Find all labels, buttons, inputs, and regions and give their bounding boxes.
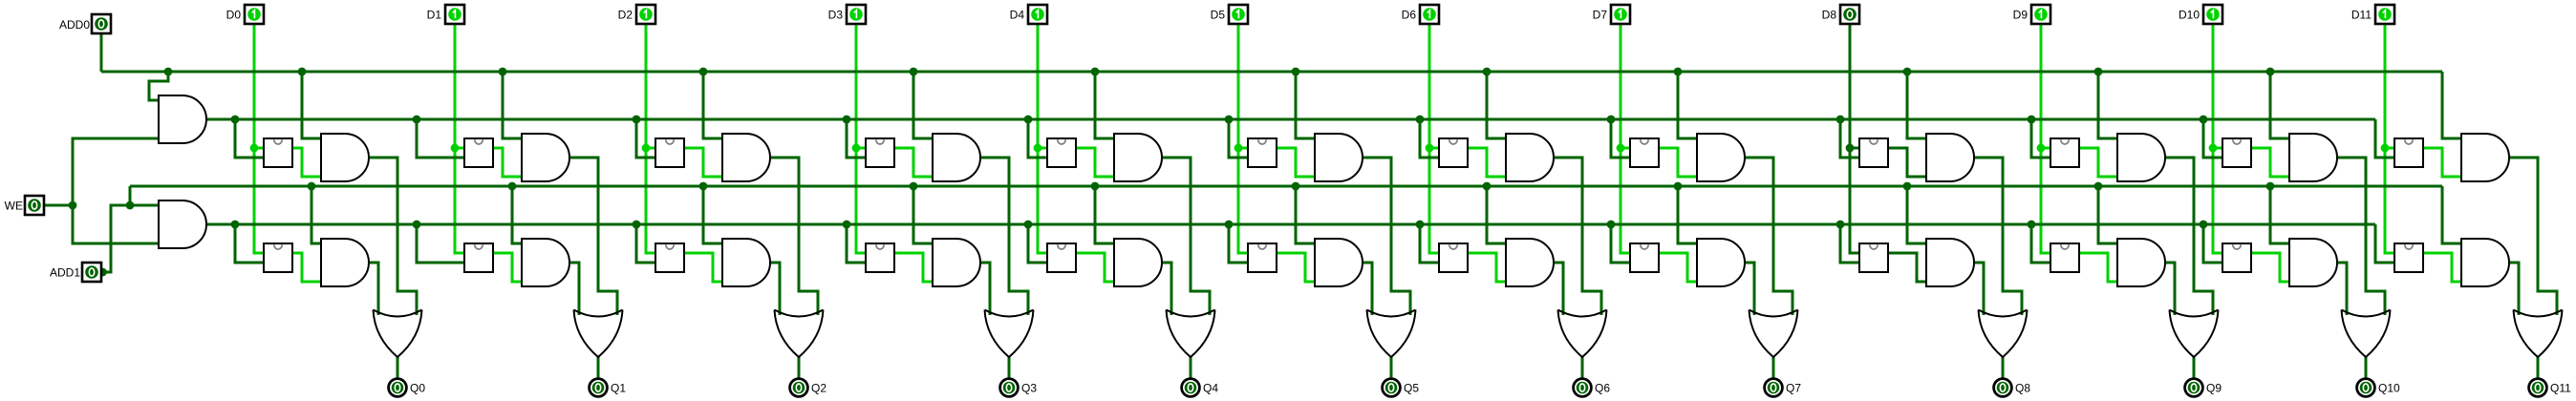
wire bus A tap down to AND U10A top input [2270,72,2289,138]
wire WE up to AND UA lower input [73,138,159,205]
junction bus A / AND UA jog [164,68,173,76]
label D8 [1822,9,1837,22]
wire AND U5A output to OR U5C right input [1363,158,1410,315]
wire bus A tap down to AND U0A top input [302,72,321,138]
svg-text:D4: D4 [1010,9,1025,22]
svg-text:Q8: Q8 [2015,382,2030,395]
wire bus 2 tap down to AND U7B top input [1678,186,1697,243]
label Q10 [2378,382,2400,395]
wire bus 3 tap down to latch L6B enable [1420,224,1439,263]
wire bus 1 tap down to latch L1A enable [417,119,464,158]
wire bus 2 tap down to AND U10B top input [2270,186,2289,243]
latch L3B (row 1, bit 3) [866,243,894,272]
wire bus A tap down to AND U2A top input [703,72,722,138]
wire ADD0 pin to bus A [100,33,103,72]
label Q6 [1595,382,1610,395]
wire bus 1 tap down to latch L9A enable [2031,119,2050,158]
wire bus 1 tap down to latch L7A enable [1611,119,1630,158]
output pin Q1 [590,379,608,397]
input pin WE [25,196,44,215]
junction bus 2 tap column 2 [699,182,708,191]
junction bus A tap column 3 [910,68,918,76]
input pin D11 [2375,5,2394,24]
label Q7 [1786,382,1801,395]
OR gate U0C (read mux, bit 0) [374,310,422,358]
AND gate U11B (row 1 read) [2461,239,2509,286]
svg-text:D3: D3 [828,9,844,22]
wire AND U3B output to OR U3C left input [980,263,990,315]
wire AND U8B output to OR U8C left input [1974,263,1984,315]
junction D1 line / latch L1A data branch [451,144,460,153]
wire bus 2 tap down to AND U9B top input [2098,186,2117,243]
output pin Q5 [1383,379,1401,397]
wire OR U4C output to pin Q4 [1190,357,1192,378]
wire branch D1 to latch L1A data input [455,147,464,150]
junction bus 1 tap column 0 [231,116,240,124]
junction bus 3 tap column 6 [1416,221,1425,229]
wire bus A tap down to AND U3A top input [913,72,933,138]
label Q0 [410,382,425,395]
wire ADD1 riser to bus 2 [129,186,132,205]
latch L1A (row 0, bit 1) [464,138,493,167]
wire branch D8 to latch L8A data input [1850,147,1859,150]
output pin Q8 [1994,379,2012,397]
svg-text:Q6: Q6 [1595,382,1610,395]
junction D10 line / latch L10A data branch [2209,144,2218,153]
svg-text:D11: D11 [2351,9,2372,22]
latch L11B (row 1, bit 11) [2394,243,2423,272]
junction WE node [69,201,77,210]
AND gate U2A (row 0 read) [722,134,770,181]
AND gate U5A (row 0 read) [1315,134,1363,181]
wire branch D9 to latch L9A data input [2041,147,2050,150]
wire latch L9A output to AND U9A lower input [2079,148,2117,177]
wire latch L11A output to AND U11A lower input [2423,148,2461,177]
junction D8 line / latch L8A data branch [1846,144,1855,153]
label D6 [1402,9,1417,22]
wire latch L6A output to AND U6A lower input [1468,148,1506,177]
wire AND U6B output to OR U6C left input [1554,263,1563,315]
wire bus 3 tap down to latch L7B enable [1611,224,1630,263]
label D2 [618,9,633,22]
wire latch L4B output to AND U4B lower input [1076,253,1114,282]
svg-text:Q3: Q3 [1021,382,1037,395]
junction D2 line / latch L2A data branch [642,144,651,153]
svg-text:D9: D9 [2013,9,2029,22]
wire bus 1 (row0 write-enable net from AND UA) [206,118,2375,121]
wire D3 vertical from pin D3 down to latch L3B data input [856,24,866,253]
wire branch D3 to latch L3A data input [856,147,866,150]
label D3 [828,9,844,22]
svg-text:ADD0: ADD0 [59,18,90,32]
wire OR U10C output to pin Q10 [2365,357,2368,378]
latch L7A (row 0, bit 7) [1630,138,1659,167]
junction bus 2 tap column 6 [1483,182,1492,191]
wire AND U5B output to OR U5C left input [1363,263,1372,315]
wire bus A tap down to AND U9A top input [2098,72,2117,138]
wire AND U0B output to OR U0C left input [369,263,378,315]
wire AND U11B output to OR U11C left input [2509,263,2519,315]
junction bus 3 tap column 0 [231,221,240,229]
svg-text:D6: D6 [1402,9,1417,22]
wire OR U1C output to pin Q1 [597,357,600,378]
junction bus A tap column 8 [1903,68,1912,76]
wire D10 vertical from pin D10 down to latch L10B data input [2213,24,2222,253]
wire bus 2 tap down to AND U5B top input [1296,186,1315,243]
label ADD0 [59,18,90,32]
svg-text:Q5: Q5 [1404,382,1419,395]
junction bus 1 tap column 4 [1024,116,1033,124]
junction bus 2 tap column 7 [1674,182,1683,191]
OR gate U11C (read mux, bit 11) [2514,310,2563,358]
label D4 [1010,9,1025,22]
input pin D2 [636,5,655,24]
wire bus 1 tap down to latch L4A enable [1028,119,1047,158]
junction bus 3 tap column 5 [1225,221,1234,229]
junction bus 3 tap column 7 [1607,221,1616,229]
input pin D10 [2203,5,2222,24]
wire bus 3 (row1 write-enable net from AND UB) [206,223,2375,226]
input pin D3 [847,5,866,24]
input pin D9 [2031,5,2050,24]
wire bus 1 tap down to latch L6A enable [1420,119,1439,158]
svg-text:D8: D8 [1822,9,1837,22]
junction D6 line / latch L6A data branch [1426,144,1434,153]
wire latch L1B output to AND U1B lower input [493,253,522,282]
wire branch D5 to latch L5A data input [1238,147,1248,150]
latch L8B (row 1, bit 8) [1859,243,1888,272]
input pin D0 [245,5,264,24]
wire bus A tap down to AND U5A top input [1296,72,1315,138]
junction bus A tap column 5 [1292,68,1300,76]
latch L2B (row 1, bit 2) [655,243,684,272]
wire WE pin to junction [44,204,73,207]
junction D9 line / latch L9A data branch [2037,144,2046,153]
wire AND U9B output to OR U9C left input [2165,263,2175,315]
OR gate U6C (read mux, bit 6) [1558,310,1607,358]
wire branch D0 to latch L0A data input [254,147,264,150]
junction D5 line / latch L5A data branch [1234,144,1243,153]
wire bus 2 (ADD1 net) horizontal [130,185,2442,188]
wire AND U7B output to OR U7C left input [1745,263,1754,315]
input pin D7 [1611,5,1630,24]
AND gate U7A (row 0 read) [1697,134,1745,181]
junction bus A tap column 2 [699,68,708,76]
junction bus 1 tap column 10 [2200,116,2208,124]
junction bus 2 tap column 10 [2266,182,2275,191]
junction bus 2 tap column 1 [508,182,517,191]
OR gate U9C (read mux, bit 9) [2170,310,2219,358]
wire bus 3 tap down to latch L2B enable [636,224,655,263]
input pin ADD1 [82,263,101,282]
junction ADD1 node / bus 2 riser [126,201,135,210]
AND gate U0A (row 0 read) [321,134,369,181]
wire AND U0A output to OR U0C right input [369,158,417,315]
output pin Q11 [2529,379,2547,397]
wire latch L8A output to AND U8A lower input [1888,148,1926,177]
junction bus 2 tap column 0 [308,182,316,191]
svg-text:D7: D7 [1593,9,1608,22]
junction bus 2 tap column 9 [2094,182,2103,191]
svg-text:D0: D0 [226,9,242,22]
input pin D8 [1840,5,1859,24]
label D5 [1211,9,1226,22]
input pin D6 [1420,5,1439,24]
wire bus 2 tap down to AND U2B top input [703,186,722,243]
wire AND U2B output to OR U2C left input [770,263,780,315]
junction bus 1 tap column 7 [1607,116,1616,124]
latch L11A (row 0, bit 11) [2394,138,2423,167]
wire AND U10A output to OR U10C right input [2337,158,2385,315]
latch L4A (row 0, bit 4) [1047,138,1076,167]
latch L9A (row 0, bit 9) [2050,138,2079,167]
junction bus 1 tap column 9 [2028,116,2036,124]
wire D7 vertical from pin D7 down to latch L7B data input [1621,24,1630,253]
wire branch D2 to latch L2A data input [646,147,655,150]
wire AND U1B output to OR U1C left input [569,263,579,315]
wire branch D7 to latch L7A data input [1621,147,1630,150]
label Q4 [1203,382,1218,395]
svg-text:D10: D10 [2179,9,2200,22]
label Q2 [811,382,826,395]
junction bus 1 tap column 1 [413,116,421,124]
latch L10B (row 1, bit 10) [2222,243,2251,272]
AND gate U4A (row 0 read) [1114,134,1162,181]
wire branch D6 to latch L6A data input [1429,147,1439,150]
wire bus 3 tap down to latch L8B enable [1840,224,1859,263]
latch L5B (row 1, bit 5) [1248,243,1277,272]
OR gate U10C (read mux, bit 10) [2342,310,2391,358]
wire WE down to AND UB lower input [73,205,159,243]
wire OR U0C output to pin Q0 [397,357,399,378]
svg-text:Q7: Q7 [1786,382,1801,395]
AND gate U2B (row 1 read) [722,239,770,286]
wire bus 2 tap down to AND U8B top input [1907,186,1926,243]
label D0 [226,9,242,22]
wire latch L4A output to AND U4A lower input [1076,148,1114,177]
wire AND U11A output to OR U11C right input [2509,158,2557,315]
wire AND U9A output to OR U9C right input [2165,158,2213,315]
wire bus A end drop to AND U11A top input [2442,72,2461,138]
junction bus 1 tap column 6 [1416,116,1425,124]
wire AND U8A output to OR U8C right input [1974,158,2022,315]
latch L2A (row 0, bit 2) [655,138,684,167]
svg-text:Q9: Q9 [2206,382,2222,395]
svg-text:D2: D2 [618,9,633,22]
latch L1B (row 1, bit 1) [464,243,493,272]
wire latch L5A output to AND U5A lower input [1277,148,1315,177]
wire bus 3 end drop to latch L11B enable [2375,224,2394,263]
AND gate UB (ADD1 AND WE, row 1 select) [159,200,206,248]
wire latch L11B output to AND U11B lower input [2423,253,2461,282]
AND gate U6A (row 0 read) [1506,134,1554,181]
wire latch L8B output to AND U8B lower input [1888,253,1926,282]
output pin Q9 [2185,379,2203,397]
svg-text:Q4: Q4 [1203,382,1218,395]
wire AND U3A output to OR U3C right input [980,158,1028,315]
wire OR U6C output to pin Q6 [1581,357,1584,378]
wire AND U4A output to OR U4C right input [1162,158,1210,315]
wire AND U1A output to OR U1C right input [569,158,617,315]
junction bus 1 tap column 2 [633,116,641,124]
svg-text:D1: D1 [427,9,442,22]
wire bus 3 tap down to latch L1B enable [417,224,464,263]
wire bus 3 tap down to latch L9B enable [2031,224,2050,263]
junction ADD1 pin terminal [98,268,107,277]
junction bus 1 tap column 3 [843,116,851,124]
AND gate U7B (row 1 read) [1697,239,1745,286]
label D1 [427,9,442,22]
latch L4B (row 1, bit 4) [1047,243,1076,272]
wire OR U7C output to pin Q7 [1772,357,1775,378]
wire bus 1 tap down to latch L2A enable [636,119,655,158]
wire OR U3C output to pin Q3 [1008,357,1011,378]
wire bus 2 end drop to AND U11B top input [2442,186,2461,243]
label Q5 [1404,382,1419,395]
wire OR U9C output to pin Q9 [2193,357,2196,378]
wire bus 2 tap down to AND U0B top input [311,186,321,243]
latch L10A (row 0, bit 10) [2222,138,2251,167]
label Q11 [2550,382,2571,395]
svg-text:Q2: Q2 [811,382,826,395]
wire AND U2A output to OR U2C right input [770,158,818,315]
junction D4 line / latch L4A data branch [1034,144,1042,153]
svg-text:ADD1: ADD1 [50,266,80,280]
wire AND U10B output to OR U10C left input [2337,263,2347,315]
wire D4 vertical from pin D4 down to latch L4B data input [1038,24,1047,253]
wire latch L3B output to AND U3B lower input [894,253,933,282]
wire latch L9B output to AND U9B lower input [2079,253,2117,282]
wire branch D4 to latch L4A data input [1038,147,1047,150]
junction bus A tap column 9 [2094,68,2103,76]
AND gate U3A (row 0 read) [933,134,980,181]
svg-text:Q10: Q10 [2378,382,2400,395]
wire latch L10A output to AND U10A lower input [2251,148,2289,177]
OR gate U7C (read mux, bit 7) [1750,310,1798,358]
wire OR U5C output to pin Q5 [1390,357,1393,378]
junction bus A tap column 6 [1483,68,1492,76]
wire D0 vertical from pin D0 down to latch L0B data input [254,24,264,253]
wire D9 vertical from pin D9 down to latch L9B data input [2041,24,2050,253]
wire latch L1A output to AND U1A lower input [493,148,522,177]
wire AND U7A output to OR U7C right input [1745,158,1792,315]
wire latch L0A output to AND U0A lower input [292,148,321,177]
junction bus 2 tap column 3 [910,182,918,191]
wire latch L6B output to AND U6B lower input [1468,253,1506,282]
wire latch L2B output to AND U2B lower input [684,253,722,282]
svg-text:WE: WE [5,200,23,213]
wire branch D10 to latch L10A data input [2213,147,2222,150]
wire bus 2 tap down to AND U4B top input [1095,186,1114,243]
wire bus 3 tap down to latch L10B enable [2203,224,2222,263]
wire bus 1 tap down to latch L10A enable [2203,119,2222,158]
wire bus 1 tap down to latch L0A enable [235,119,264,158]
wire bus 1 tap down to latch L3A enable [847,119,866,158]
label Q8 [2015,382,2030,395]
latch L3A (row 0, bit 3) [866,138,894,167]
junction bus A tap column 7 [1674,68,1683,76]
output pin Q6 [1574,379,1592,397]
OR gate U5C (read mux, bit 5) [1367,310,1416,358]
junction D3 line / latch L3A data branch [852,144,861,153]
input pin D5 [1229,5,1248,24]
output pin Q10 [2357,379,2375,397]
latch L6A (row 0, bit 6) [1439,138,1468,167]
input pin D4 [1028,5,1047,24]
OR gate U8C (read mux, bit 8) [1979,310,2028,358]
wire bus 1 end drop to latch L11A enable [2375,119,2394,158]
wire AND U6A output to OR U6C right input [1554,158,1601,315]
junction bus A tap column 4 [1091,68,1100,76]
wire latch L3A output to AND U3A lower input [894,148,933,177]
svg-text:Q1: Q1 [611,382,626,395]
AND gate U0B (row 1 read) [321,239,369,286]
AND gate U10B (row 1 read) [2289,239,2337,286]
OR gate U1C (read mux, bit 1) [574,310,623,358]
wire bus A jog down into AND UA top input [149,72,168,100]
wire bus 1 tap down to latch L5A enable [1229,119,1248,158]
wire D6 vertical from pin D6 down to latch L6B data input [1429,24,1439,253]
wire bus 3 tap down to latch L3B enable [847,224,866,263]
wire bus A tap down to AND U1A top input [503,72,522,138]
wire bus A (ADD0 net) horizontal [101,71,2442,74]
latch L6B (row 1, bit 6) [1439,243,1468,272]
wire bus 1 tap down to latch L8A enable [1840,119,1859,158]
junction bus 3 tap column 3 [843,221,851,229]
AND gate U10A (row 0 read) [2289,134,2337,181]
wire bus 2 tap down to AND U3B top input [913,186,933,243]
wire bus A tap down to AND U4A top input [1095,72,1114,138]
svg-text:Q11: Q11 [2550,382,2571,395]
label D11 [2351,9,2372,22]
junction bus 2 tap column 4 [1091,182,1100,191]
AND gate U8B (row 1 read) [1926,239,1974,286]
AND gate U4B (row 1 read) [1114,239,1162,286]
wire branch D11 to latch L11A data input [2385,147,2394,150]
latch L0B (row 1, bit 0) [264,243,292,272]
wire bus 2 tap down to AND U1B top input [512,186,522,243]
svg-text:D5: D5 [1211,9,1226,22]
junction bus 3 tap column 8 [1836,221,1845,229]
wire bus 3 tap down to latch L5B enable [1229,224,1248,263]
junction bus 1 tap column 5 [1225,116,1234,124]
input pin D1 [445,5,464,24]
latch L0A (row 0, bit 0) [264,138,292,167]
label Q1 [611,382,626,395]
input pin ADD0 [92,14,111,33]
AND gate U9B (row 1 read) [2117,239,2165,286]
output pin Q7 [1765,379,1783,397]
junction bus 3 tap column 2 [633,221,641,229]
label Q9 [2206,382,2222,395]
AND gate U9A (row 0 read) [2117,134,2165,181]
wire bus 3 tap down to latch L4B enable [1028,224,1047,263]
wire bus A tap down to AND U8A top input [1907,72,1926,138]
wire latch L7B output to AND U7B lower input [1659,253,1697,282]
junction bus A tap column 0 [298,68,307,76]
AND gate U8A (row 0 read) [1926,134,1974,181]
wire D11 vertical from pin D11 down to latch L11B data input [2385,24,2394,253]
output pin Q4 [1182,379,1200,397]
wire bus 3 tap down to latch L0B enable [235,224,264,263]
wire D2 vertical from pin D2 down to latch L2B data input [646,24,655,253]
wire latch L7A output to AND U7A lower input [1659,148,1697,177]
OR gate U3C (read mux, bit 3) [985,310,1034,358]
wire OR U11C output to pin Q11 [2537,357,2540,378]
wire D1 vertical from pin D1 down to latch L1B data input [455,24,464,253]
wire AND U4B output to OR U4C left input [1162,263,1171,315]
wire latch L10B output to AND U10B lower input [2251,253,2289,282]
